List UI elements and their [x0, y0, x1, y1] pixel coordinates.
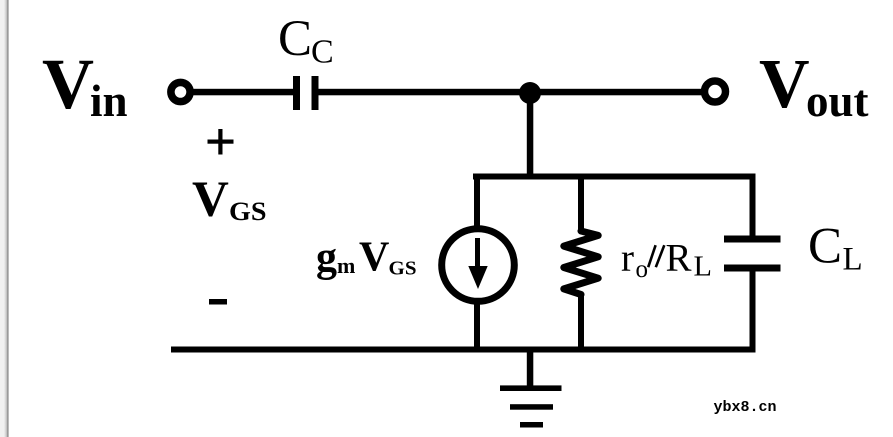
wire top bar: [473, 174, 756, 180]
svg-text:C: C: [808, 218, 842, 274]
wire CL to bottom rail: [750, 268, 756, 352]
svg-text:L: L: [843, 242, 863, 278]
label CL: [808, 218, 863, 277]
svg-text:GS: GS: [389, 258, 417, 280]
svg-text:r: r: [621, 237, 634, 280]
wire node to top bar: [527, 93, 534, 177]
label Vin: [42, 44, 128, 126]
current source gmVGS: [442, 229, 515, 302]
wire top bar to resistor: [578, 174, 584, 232]
terminal Vin: [171, 82, 190, 101]
wire resistor to bottom rail: [578, 294, 584, 352]
svg-text:V: V: [359, 235, 389, 281]
left page edge shading: [0, 0, 9, 437]
svg-text:V: V: [42, 44, 94, 124]
terminal Vout: [705, 81, 726, 102]
svg-text:in: in: [90, 76, 128, 126]
svg-text:C: C: [311, 34, 334, 71]
label VGS: [192, 172, 267, 228]
svg-text:o: o: [636, 256, 649, 283]
resistor ro//RL: [564, 231, 598, 295]
wire CC to Vout terminal: [319, 89, 704, 96]
label Vout: [759, 46, 869, 126]
watermark ybx8.cn: [714, 399, 777, 416]
svg-text:R: R: [666, 237, 692, 280]
label CC: [278, 11, 334, 71]
svg-text:ybx8.cn: ybx8.cn: [714, 399, 777, 416]
node A (output node): [519, 82, 541, 104]
wire top bar to current source: [474, 174, 480, 227]
capacitor CL: [724, 236, 781, 272]
capacitor CC: [293, 76, 319, 110]
minus sign: [209, 299, 227, 305]
plus sign: [208, 129, 234, 155]
ground: [500, 349, 562, 428]
wire bottom rail: [171, 347, 756, 353]
svg-text:m: m: [337, 253, 355, 278]
svg-text:GS: GS: [229, 197, 267, 226]
label gmVGS: [316, 235, 417, 282]
svg-text:L: L: [694, 252, 713, 283]
label ro//RL: [621, 237, 712, 284]
svg-text:V: V: [759, 46, 810, 123]
svg-text:out: out: [806, 76, 869, 126]
svg-text:V: V: [192, 172, 229, 228]
wire top bar to CL: [750, 174, 756, 236]
wire Vin to CC: [191, 89, 293, 96]
svg-text:C: C: [278, 11, 312, 67]
wire current source to bottom rail: [474, 300, 480, 352]
svg-text:g: g: [316, 235, 337, 281]
